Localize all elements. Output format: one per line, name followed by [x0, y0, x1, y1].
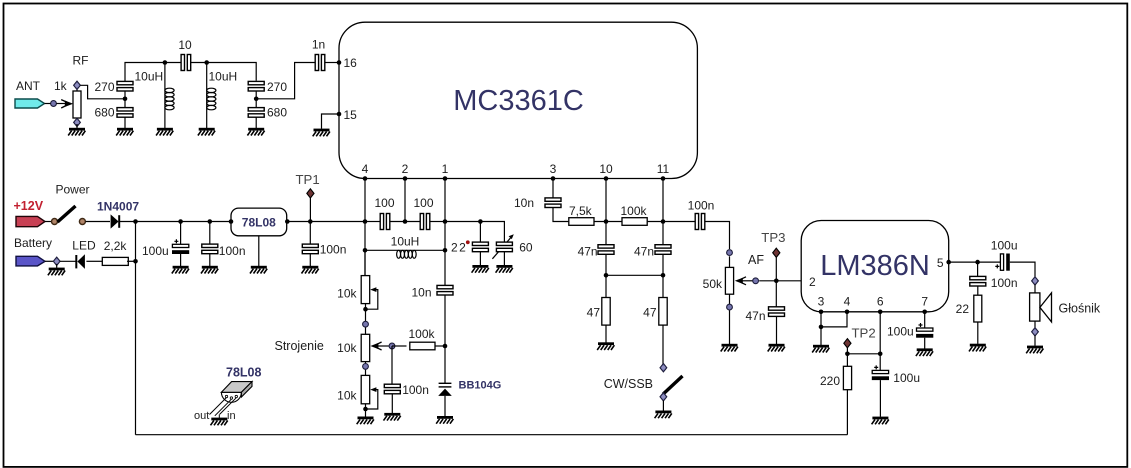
svg-text:RF: RF: [73, 54, 89, 68]
wire 10n to varicap junction: [444, 295, 446, 383]
wire cap b to pin1: [430, 221, 445, 223]
wire pin 5 out: [949, 261, 1001, 263]
svg-text:TP3: TP3: [761, 230, 785, 245]
ground under 100n input: [201, 266, 218, 274]
test point TP3: [773, 248, 780, 281]
test point TP1: [307, 189, 314, 222]
svg-text:22: 22: [451, 240, 467, 254]
diode LED: [76, 254, 85, 269]
junction pin 1 rail: [443, 219, 448, 224]
ground under 680 right: [247, 128, 264, 136]
svg-text:out: out: [194, 410, 209, 422]
potentiometer 10k middle Strojenie: [361, 334, 392, 361]
ground pin 15: [313, 129, 330, 137]
svg-text:22: 22: [956, 302, 970, 316]
wire node B vertical: [255, 91, 257, 108]
svg-text:Power: Power: [56, 183, 90, 197]
svg-text:680: 680: [267, 106, 287, 120]
capacitor 100 a: [380, 214, 390, 230]
svg-text:78L08: 78L08: [242, 216, 276, 230]
svg-text:16: 16: [344, 56, 358, 70]
connector Battery: [16, 256, 45, 266]
ground under left coil: [156, 128, 173, 136]
junction pin 1 osc row: [443, 248, 448, 253]
junction pin 6 row: [878, 352, 883, 357]
junction left coil top: [163, 60, 168, 65]
ground under 50k: [721, 344, 738, 352]
wire 7,5k to 100k: [594, 221, 621, 223]
op-amp U2 LM386N body: [801, 221, 949, 312]
wire 100u stub: [180, 222, 182, 245]
svg-text:680: 680: [94, 106, 114, 120]
svg-text:100k: 100k: [408, 327, 435, 341]
wire pin 1 down: [444, 179, 446, 286]
wire battery to node: [45, 260, 53, 262]
inductor 10uH osc: [397, 250, 417, 258]
junction 10k bottom wiper: [363, 407, 368, 412]
svg-text:100k: 100k: [621, 204, 648, 218]
regulator 78L08: [231, 208, 287, 236]
wire 100n stub: [209, 222, 211, 245]
capacitor 1n: [315, 55, 325, 71]
svg-text:Battery: Battery: [14, 236, 52, 250]
wire AF to pin 2: [759, 280, 801, 282]
svg-text:15: 15: [344, 108, 358, 122]
capacitor 100 b: [420, 214, 430, 230]
wire 50k bottom: [729, 294, 731, 344]
wire 680 left to ground: [124, 117, 126, 128]
svg-text:LED: LED: [72, 239, 96, 253]
ground battery node: [48, 264, 65, 275]
svg-text:10n: 10n: [411, 285, 431, 299]
node speaker bottom: [1032, 328, 1039, 336]
svg-text:ANT: ANT: [16, 79, 41, 93]
node battery: [53, 257, 60, 265]
svg-text:5: 5: [937, 256, 944, 270]
wire 47n af to ground: [776, 316, 778, 344]
wire pin 3 to ground: [820, 312, 822, 345]
potentiometer RF 1k: [73, 89, 81, 120]
node CW/SSB top: [660, 364, 667, 372]
capacitor 270 left: [117, 81, 133, 91]
svg-text:10n: 10n: [514, 196, 534, 210]
node RF pot bottom: [74, 118, 81, 126]
svg-text:10k: 10k: [337, 388, 357, 402]
pin 4: [362, 162, 369, 181]
svg-text:3: 3: [818, 294, 825, 308]
node ANT: [51, 101, 57, 107]
capacitor 10: [181, 55, 191, 71]
svg-text:100: 100: [374, 196, 394, 210]
wire RF pot top to filter node A: [80, 85, 125, 99]
wire switch to diode: [86, 221, 110, 223]
wire 22 output to ground: [977, 322, 979, 344]
node speaker top: [1032, 277, 1039, 285]
ground pins 3 4: [812, 345, 829, 353]
wire 47 b to switch: [662, 325, 664, 364]
capacitor 270 right: [248, 81, 264, 91]
node B junction: [254, 97, 259, 102]
connector ANT: [15, 99, 45, 108]
wire node to LED: [60, 260, 76, 262]
svg-text:10uH: 10uH: [391, 234, 420, 248]
wire LED to 2,2k: [86, 260, 102, 262]
svg-text:10k: 10k: [337, 341, 357, 355]
capacitor 100n input: [202, 244, 218, 254]
capacitor 100u output: [995, 254, 1010, 271]
wire 47n a down: [605, 254, 607, 297]
wire 1n to pin 16: [325, 62, 339, 64]
wire osc row to 10k chain: [364, 250, 366, 275]
capacitor 47n b: [655, 245, 671, 255]
junction LED rail: [133, 259, 138, 264]
svg-text:CW/SSB: CW/SSB: [604, 377, 653, 391]
wire pin 15 to ground: [322, 114, 340, 129]
wire 10n pin3 to 7,5k: [553, 207, 568, 221]
wire 47n row: [606, 274, 663, 276]
ground under 47 a: [597, 342, 614, 350]
ground under 100n strojenie: [384, 413, 401, 421]
wire cap a to cap b: [390, 221, 421, 223]
node AF wiper: [753, 278, 759, 284]
svg-text:10k: 10k: [337, 286, 357, 300]
capacitor 100u pin6: [872, 365, 889, 380]
junction TP1: [308, 219, 313, 224]
regulator 78L08 package TO-92: [210, 382, 253, 416]
capacitor 100u pin7: [916, 323, 933, 338]
wire left vertical rail: [135, 222, 137, 435]
pin 78L08 in: [229, 219, 234, 224]
junction pin 4 osc row: [363, 248, 368, 253]
potentiometer 50k AF: [725, 267, 755, 294]
svg-text:7,5k: 7,5k: [569, 204, 593, 218]
wire pin 4 down: [364, 179, 366, 276]
wire 10k top to middle: [365, 304, 367, 335]
wire node to speaker: [1034, 285, 1036, 293]
wire output to 100n: [977, 262, 979, 277]
svg-text:10uH: 10uH: [135, 70, 164, 84]
junction 100n: [208, 219, 213, 224]
speaker Glosnik: [1030, 293, 1052, 322]
switch Power lever: [58, 206, 76, 222]
ground under RF pot: [68, 124, 85, 136]
ground under 10k chain: [357, 417, 374, 425]
wire TP3 junction to 47n: [775, 281, 777, 307]
svg-text:47n: 47n: [745, 309, 765, 323]
resistor 22 output: [974, 295, 982, 322]
wire diode to 78L08: [120, 221, 232, 223]
pin 15: [337, 108, 357, 122]
wire pin 7 down: [924, 312, 926, 328]
svg-text:Głośnik: Głośnik: [1059, 302, 1101, 316]
resistor 100k demod: [622, 218, 647, 226]
wire pin 11 down: [662, 179, 664, 246]
wire TP2 to 220: [846, 354, 848, 367]
svg-text:2: 2: [402, 162, 409, 176]
svg-text:1k: 1k: [54, 79, 68, 93]
wire 220 to bottom rail: [846, 390, 848, 435]
svg-text:100u: 100u: [887, 324, 914, 338]
svg-text:270: 270: [94, 80, 114, 94]
wire ANT to RF pot wiper: [45, 100, 74, 108]
wire 100n strojenie to ground: [391, 394, 393, 413]
inductor 10uH right: [207, 63, 216, 129]
wire 22 cap to ground: [479, 252, 481, 266]
wire 100n TP1 to ground: [309, 254, 311, 266]
wire rail pin4 to cap a: [365, 221, 380, 223]
junction pin 11 row: [661, 219, 666, 224]
label 22 star: [451, 240, 470, 254]
svg-text:47: 47: [587, 305, 601, 319]
wire pin 3 down: [552, 179, 554, 199]
svg-text:10: 10: [178, 38, 192, 52]
wire bottom rail: [136, 434, 848, 436]
wire top rail right: [191, 63, 257, 81]
wire 100u to ground: [180, 254, 182, 266]
wire pin 2 down: [404, 179, 406, 222]
pin 5 LM386N: [937, 256, 951, 270]
svg-text:100u: 100u: [142, 244, 169, 258]
ground under 100u pin7: [916, 348, 933, 356]
pin 3 LM386N: [818, 294, 825, 314]
svg-text:LM386N: LM386N: [820, 250, 930, 282]
capacitor 22: [472, 242, 488, 252]
wire wiper node down: [391, 346, 393, 385]
junction 22 cap: [478, 219, 483, 224]
svg-text:47n: 47n: [578, 245, 598, 259]
wire speaker node to ground: [1034, 336, 1036, 346]
wire speaker to bottom node: [1034, 321, 1036, 328]
wire BB104G to ground: [444, 396, 446, 416]
capacitor 100n TP1: [302, 244, 318, 254]
svg-text:100n: 100n: [991, 276, 1018, 290]
ground under 22 output: [969, 344, 986, 352]
wire 50k top stub: [729, 256, 731, 267]
junction right coil top: [204, 60, 209, 65]
wire +12V to switch: [45, 221, 51, 223]
svg-text:10: 10: [599, 162, 613, 176]
svg-text:100n: 100n: [688, 199, 715, 213]
svg-text:100u: 100u: [893, 371, 920, 385]
wire TP2 row: [847, 353, 880, 355]
wire 100u pin7 to ground: [924, 338, 926, 349]
varicap BB104G: [438, 383, 452, 396]
wire 680 right to ground: [255, 117, 257, 128]
capacitor 100n output: [970, 276, 986, 286]
switch CW/SSB lever: [663, 376, 682, 394]
svg-text:47n: 47n: [634, 245, 654, 259]
svg-text:11: 11: [657, 162, 670, 176]
svg-text:6: 6: [877, 294, 884, 308]
svg-text:TP2: TP2: [852, 325, 876, 340]
wire 100k to varicap line: [435, 345, 445, 347]
svg-text:MC3361C: MC3361C: [453, 85, 584, 117]
wire 47 a to ground: [605, 325, 607, 342]
diode 1N4007: [111, 214, 120, 228]
node 50k bottom: [727, 304, 733, 310]
ground under right coil: [198, 128, 215, 136]
junction pin 10 row: [604, 219, 609, 224]
pin 3: [550, 162, 557, 181]
capacitor 47n a: [598, 245, 614, 255]
pin 1: [442, 162, 449, 181]
op-amp U1 MC3361C body: [339, 22, 697, 178]
svg-text:100: 100: [413, 196, 433, 210]
capacitor 100n af: [695, 214, 705, 230]
resistor 2,2k: [102, 257, 128, 265]
node RF pot top: [74, 81, 81, 89]
ground under 100u input: [172, 266, 189, 274]
svg-text:220: 220: [820, 374, 840, 388]
wire 2,2k to vertical: [127, 260, 136, 262]
pin 10: [599, 162, 613, 181]
wire 100n to ground: [209, 254, 211, 266]
wire 100n af to 50k: [705, 222, 730, 250]
wire node B to 1n: [256, 63, 315, 99]
svg-text:TP1: TP1: [296, 172, 320, 187]
wire 10k bottom to ground: [365, 404, 367, 417]
connector +12V: [16, 216, 45, 226]
svg-text:AF: AF: [748, 253, 764, 267]
junction pin 4 rail: [363, 219, 368, 224]
svg-text:50k: 50k: [703, 277, 723, 291]
ground under 100n TP1: [302, 266, 319, 274]
test point TP2: [844, 339, 851, 354]
capacitor 10n osc: [437, 285, 453, 295]
svg-text:in: in: [227, 410, 236, 422]
ground 78L08: [250, 266, 267, 274]
pin 4 LM386N: [844, 294, 851, 314]
svg-text:Strojenie: Strojenie: [275, 339, 324, 353]
junction 10k top wiper: [363, 307, 368, 312]
capacitor 100n strojenie: [384, 384, 400, 394]
resistor 47 b: [659, 298, 667, 326]
svg-text:4: 4: [362, 162, 369, 176]
capacitor 100u input: [172, 239, 189, 254]
svg-text:78L08: 78L08: [226, 365, 261, 379]
junction TP3: [774, 279, 779, 284]
ground under 100u pin6: [872, 417, 889, 425]
wire 100k to 100n out: [648, 221, 696, 223]
junction supply/battery: [133, 219, 138, 224]
inductor 10uH left: [165, 63, 174, 129]
wire 60 to ground: [503, 252, 505, 266]
svg-text:+12V: +12V: [14, 199, 44, 213]
junction pin 2 rail: [403, 219, 408, 224]
capacitor 47n af: [769, 307, 785, 317]
pin 7 LM386N: [921, 294, 928, 314]
wire pin 4 to pin 3: [821, 312, 847, 327]
svg-text:270: 270: [267, 80, 287, 94]
resistor 220: [843, 366, 851, 389]
wire output cap to speaker: [1010, 262, 1035, 278]
capacitor 680 left: [117, 108, 133, 118]
node CW/SSB bottom: [660, 393, 667, 401]
wire rail pin1 to trimmers: [445, 222, 504, 243]
junction 47n row a: [604, 273, 609, 278]
svg-text:BB104G: BB104G: [459, 380, 502, 392]
node A junction: [123, 97, 128, 102]
node 50k top: [727, 250, 733, 256]
svg-text:3: 3: [550, 162, 557, 176]
junction varicap: [443, 344, 448, 349]
wire wiper node to 100k: [392, 345, 407, 347]
ground under CW/SSB: [655, 411, 672, 419]
svg-text:60: 60: [519, 240, 533, 254]
pin 11: [657, 162, 670, 181]
wire 47n b down: [662, 254, 664, 297]
wire osc row: [365, 249, 445, 251]
potentiometer 10k top: [361, 276, 378, 310]
wire 78L08 to pin 4 rail: [287, 221, 365, 223]
capacitor 10n pin3: [545, 198, 561, 208]
svg-text:47: 47: [643, 305, 657, 319]
wire CW/SSB to ground: [662, 401, 664, 411]
ground under 680 left: [116, 128, 133, 136]
node strojenie wiper: [389, 343, 395, 349]
svg-text:1: 1: [442, 162, 449, 176]
wire pin 10 down: [605, 179, 607, 246]
wire TP1 100n stub: [309, 222, 311, 245]
wire 10k middle to bottom: [365, 362, 367, 376]
svg-text:100n: 100n: [320, 243, 347, 257]
svg-text:1n: 1n: [312, 38, 325, 52]
svg-text:100u: 100u: [991, 239, 1018, 253]
resistor 47 a: [602, 298, 610, 326]
svg-text:2,2k: 2,2k: [104, 239, 128, 253]
wire 22 cap stub: [479, 222, 481, 243]
pin 6 LM386N: [877, 294, 884, 314]
wire 100u pin6 to ground: [879, 380, 881, 417]
ground under 47n af: [768, 344, 785, 352]
wire node A vertical: [124, 91, 126, 108]
trimmer capacitor 60: [492, 234, 513, 259]
node strojenie upper: [363, 321, 369, 327]
switch Power contact left: [52, 219, 58, 225]
wire top rail left: [125, 63, 181, 82]
pin 2: [402, 162, 409, 181]
potentiometer 10k bottom: [361, 375, 378, 409]
wire 78L08 gnd: [258, 236, 260, 266]
junction output: [975, 260, 980, 265]
ground under BB104G: [436, 416, 453, 424]
ground under 22 cap: [472, 265, 489, 273]
svg-text:100n: 100n: [219, 244, 246, 258]
switch Power contact right: [79, 219, 85, 225]
resistor 100k strojenie: [410, 342, 435, 350]
resistor 7,5k: [569, 218, 594, 226]
svg-text:1N4007: 1N4007: [97, 199, 139, 213]
svg-text:2: 2: [809, 275, 816, 289]
svg-text:7: 7: [921, 294, 928, 308]
wire pin 6 down: [879, 312, 881, 371]
junction TP2: [845, 352, 850, 357]
ground 78L08 package: [211, 415, 228, 426]
svg-text:4: 4: [844, 294, 851, 308]
pin 78L08 out: [285, 219, 290, 224]
svg-text:100n: 100n: [402, 383, 429, 397]
svg-text:10uH: 10uH: [209, 70, 238, 84]
junction 100u: [178, 219, 183, 224]
pin 16: [337, 56, 357, 70]
wire 100n output to 22: [977, 286, 979, 295]
capacitor 680 right: [248, 108, 264, 118]
junction pin 3/4: [819, 325, 824, 330]
node strojenie lower: [363, 364, 369, 370]
ground under 60: [496, 265, 513, 273]
junction 47n row b: [661, 273, 666, 278]
ground under speaker: [1026, 346, 1043, 354]
